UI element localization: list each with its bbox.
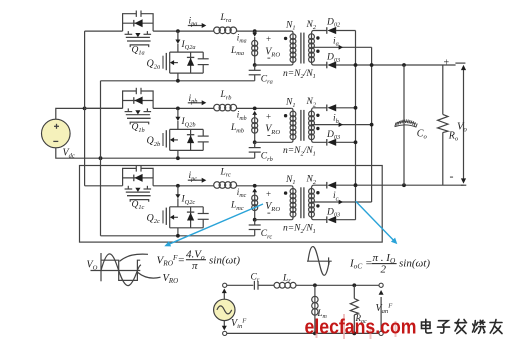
current arrow i_mc bbox=[252, 188, 257, 192]
current arrow I_Q2a bbox=[177, 31, 179, 40]
callout curve to VRO label bbox=[138, 273, 161, 279]
transistor Q2b mosfet bbox=[177, 121, 179, 129]
transistor Q1c mosfet body bbox=[127, 186, 129, 189]
polarity dot primary b bbox=[284, 114, 287, 117]
wire junction dot L_mc to C_rc bbox=[253, 218, 257, 222]
wire node dot phase c half-bridge midpoint bbox=[176, 184, 180, 188]
resistor Rac bbox=[353, 285, 355, 298]
snubber diode of Q1a bbox=[123, 22, 154, 24]
snubber capacitor of Q1a bbox=[135, 11, 137, 17]
snubber diode of Q1b bbox=[123, 100, 154, 102]
wire junction dot L_ma to C_ra bbox=[253, 63, 257, 67]
magnetizing inductor L_mb bbox=[254, 114, 256, 142]
wire phase a bottom rail bbox=[101, 80, 255, 82]
terminal circle top right bbox=[379, 283, 383, 287]
terminal circle bottom left bbox=[223, 331, 227, 335]
transformer Ta primary winding N1 bbox=[255, 31, 293, 65]
wire bus Vdc+ vertical to phase-a and phase-c rails bbox=[84, 31, 86, 186]
wire junction dot Vdc- bus bbox=[99, 156, 103, 160]
wire D03 phase c tail bbox=[336, 219, 356, 221]
resonant inductor L_ra bbox=[214, 27, 221, 34]
wire D03 phase b tail bbox=[336, 141, 356, 143]
wire secondary top to diode D02 phase b bbox=[312, 108, 327, 111]
wire junction dot Q2a source to bottom rail bbox=[176, 79, 180, 83]
wire junction dot Vdc+ bus bbox=[83, 107, 87, 111]
transistor Q2a mosfet bbox=[177, 44, 179, 52]
transformer Tb primary winding N1 bbox=[255, 108, 293, 142]
svg-text:+: + bbox=[266, 111, 271, 121]
current arrow I_Q2c bbox=[177, 186, 179, 195]
terminal circle bottom right bbox=[379, 331, 383, 335]
wire phase a top rail bbox=[85, 30, 123, 32]
wire D02 phase b to rectifier bus bbox=[336, 107, 356, 109]
resonant inductor L_rb bbox=[214, 104, 221, 111]
label bracket Q1a bbox=[130, 45, 149, 47]
svg-text:n=N2/N1: n=N2/N1 bbox=[283, 69, 316, 80]
polarity dots secondary b bbox=[316, 114, 319, 117]
transistor Q2c mosfet bbox=[177, 198, 179, 206]
load resistor Ro bbox=[442, 65, 444, 114]
transformer Tc primary winding N1 bbox=[255, 186, 293, 220]
junction dots anode bus bbox=[354, 63, 358, 67]
rectifier diode D02 phase b bbox=[326, 105, 328, 112]
transformer Tc core bbox=[300, 187, 302, 218]
svg-text:-: - bbox=[450, 169, 454, 183]
wire rectifier anode bus bbox=[355, 31, 357, 220]
wire node dot phase a half-bridge midpoint bbox=[176, 29, 180, 33]
ac source Vin bbox=[214, 299, 235, 320]
snubber capacitor of Q1c bbox=[135, 165, 137, 171]
rectifier diode D02 phase c bbox=[326, 182, 328, 189]
junction dots center-tap bus bbox=[370, 63, 374, 67]
transformer Tb core bbox=[300, 110, 302, 141]
callout curve to formula bbox=[120, 254, 149, 261]
polarity dot primary a bbox=[284, 37, 287, 40]
callout arrow to IoC formula bbox=[356, 201, 395, 241]
label bracket Q1c bbox=[130, 200, 149, 202]
resonant inductor L_rc bbox=[214, 182, 221, 189]
snubber loop of Q1c bbox=[123, 168, 154, 185]
junction dot output + rail at Co bbox=[402, 63, 406, 67]
wire secondary top to diode D02 phase a bbox=[312, 31, 327, 34]
wire phase c top rail bbox=[85, 185, 123, 187]
wire center tap i_c bbox=[312, 201, 372, 203]
wire Vdc plus terminal to phase-b rail bbox=[56, 108, 123, 119]
arrow Vin up bbox=[223, 292, 225, 299]
body diode of Q2c bbox=[190, 207, 192, 228]
square wave VRO bbox=[101, 260, 140, 280]
svg-text:elecfans.com: elecfans.com bbox=[305, 316, 417, 339]
watermark Chinese characters dian zi fa shao you bbox=[422, 319, 503, 333]
wire phase c bottom rail bbox=[101, 235, 255, 237]
transistor Q1a mosfet body bbox=[127, 31, 129, 34]
wire secondary bottom to diode D03 phase c bbox=[312, 217, 327, 220]
junction dots eq bottom bbox=[313, 332, 317, 336]
rectifier diode D03 phase a bbox=[326, 62, 328, 69]
arrow Van bbox=[380, 297, 382, 331]
resonant capacitor C_ra bbox=[254, 65, 256, 70]
capacitor Cr bbox=[253, 281, 255, 290]
current arrow I_Q2b bbox=[177, 108, 179, 117]
svg-text:π: π bbox=[192, 260, 198, 272]
wire D02 phase c to rectifier bus bbox=[336, 184, 464, 186]
transformer Ta secondary winding N2 bbox=[311, 33, 313, 63]
wire junction dot L_mb to C_rb bbox=[253, 140, 257, 144]
watermark red brush strokes bbox=[317, 314, 396, 339]
junction dot Rac top bbox=[352, 283, 356, 287]
arrow Vin down bbox=[223, 321, 225, 327]
wire junction dot Q2b source to bottom rail bbox=[176, 156, 180, 160]
junction dot Lm top bbox=[313, 283, 317, 287]
rectifier diode D03 phase c bbox=[326, 216, 328, 223]
label bracket Q1b bbox=[130, 122, 149, 124]
wire secondary bottom to diode D03 phase a bbox=[312, 62, 327, 65]
phase-c module enclosure box bbox=[80, 166, 383, 243]
parallel capacitor of Q2c bbox=[202, 207, 204, 214]
sine wave VO bbox=[101, 254, 141, 286]
junction dot output - rail at Co bbox=[402, 183, 406, 187]
wire node dot phase c resonant tank node bbox=[253, 184, 257, 188]
wire center tap i_b bbox=[312, 124, 372, 126]
svg-text:n=N2/N1: n=N2/N1 bbox=[283, 146, 316, 157]
polarity dot primary c bbox=[284, 191, 287, 194]
magnetizing inductor L_ma bbox=[254, 37, 256, 65]
wire node dot phase a resonant tank node bbox=[253, 29, 257, 33]
svg-text:sin(ωt): sin(ωt) bbox=[399, 258, 430, 270]
waveform axis bbox=[91, 270, 141, 272]
polarity dots secondary c bbox=[316, 191, 319, 194]
svg-text:-: - bbox=[267, 52, 271, 64]
wire D03 phase a tail bbox=[336, 64, 456, 66]
transformer Tb secondary winding N2 bbox=[311, 110, 313, 140]
wire node dot phase b resonant tank node bbox=[253, 107, 257, 111]
snubber loop of Q1a bbox=[123, 14, 154, 31]
wire D02 phase a to rectifier bus bbox=[336, 30, 356, 32]
polarity dots secondary a bbox=[316, 36, 319, 39]
svg-text:+: + bbox=[266, 34, 271, 44]
svg-text:n=N2/N1: n=N2/N1 bbox=[283, 224, 316, 235]
snubber loop of Q1b bbox=[123, 91, 154, 108]
svg-text:2: 2 bbox=[381, 264, 387, 276]
transformer Ta core bbox=[300, 33, 302, 64]
snubber capacitor of Q1b bbox=[135, 88, 137, 94]
dc source Vdc bbox=[42, 119, 71, 148]
callout arrow to VRO formula bbox=[168, 204, 264, 245]
resonant capacitor C_rc bbox=[254, 220, 256, 225]
svg-text:-: - bbox=[267, 206, 271, 218]
wire Vdc minus terminal to phase-b bottom rail bbox=[56, 148, 255, 158]
output capacitor Co bbox=[403, 65, 405, 185]
parallel capacitor of Q2a bbox=[202, 52, 204, 59]
svg-text:-: - bbox=[267, 129, 271, 141]
parallel capacitor of Q2b bbox=[202, 129, 204, 136]
wire phase b top rail bbox=[85, 107, 123, 109]
magnetizing inductor L_mc bbox=[254, 192, 256, 220]
wire eq top bbox=[227, 284, 254, 286]
terminal circle top left bbox=[223, 283, 227, 287]
current arrow i_pa with underline bbox=[188, 25, 202, 27]
wire junction dot Q2c source to bottom rail bbox=[176, 234, 180, 238]
snubber diode of Q1c bbox=[123, 177, 154, 179]
current arrow i_pc with underline bbox=[188, 179, 202, 181]
current arrow i_ma bbox=[254, 31, 256, 33]
resonant capacitor C_rb bbox=[254, 142, 256, 147]
rectifier diode D02 phase a bbox=[326, 27, 328, 34]
wire center tap i_a bbox=[312, 46, 372, 48]
rectifier diode D03 phase b bbox=[326, 139, 328, 146]
wire node dot phase b half-bridge midpoint bbox=[176, 107, 180, 111]
svg-text:+: + bbox=[266, 189, 271, 199]
transistor Q1b mosfet body bbox=[127, 108, 129, 111]
svg-text:sin(ωt): sin(ωt) bbox=[209, 255, 240, 267]
transformer Tc secondary winding N2 bbox=[311, 188, 313, 218]
inductor Lr eq bbox=[274, 282, 280, 288]
output voltage Vo arrow bbox=[455, 62, 465, 64]
body diode of Q2b bbox=[190, 129, 192, 150]
current arrow i_pb with underline bbox=[188, 102, 202, 104]
wire secondary bottom to diode D03 phase b bbox=[312, 140, 327, 143]
body diode of Q2a bbox=[190, 52, 192, 73]
wire eq bottom bbox=[227, 332, 379, 334]
svg-text:+: + bbox=[444, 58, 450, 69]
wire bus Vdc- vertical phase-a bottom to phase-c bottom bbox=[100, 81, 102, 236]
magnetizing inductor Lm eq bbox=[314, 285, 316, 333]
sine wave symbol bbox=[307, 260, 332, 262]
wire center-tap bus bbox=[371, 47, 373, 202]
current arrow i_mb bbox=[252, 111, 257, 115]
wire secondary top to diode D02 phase c bbox=[312, 185, 327, 188]
